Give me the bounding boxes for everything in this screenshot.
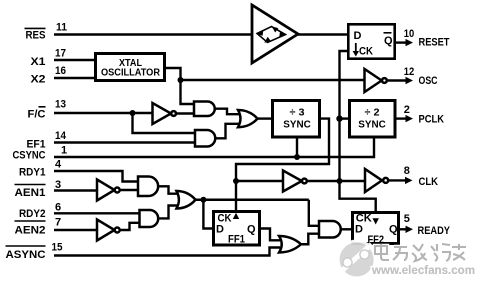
wire OSC output xyxy=(387,79,407,81)
pin label RDY1 (pin 4) xyxy=(19,159,62,179)
wire AEN2 inverter output to AND2 xyxy=(120,223,140,230)
pin label EF1 (pin 14) xyxy=(27,130,67,151)
watermark logo circle xyxy=(338,241,375,278)
pin label X1 (pin 17) xyxy=(31,48,67,69)
svg-text:Q: Q xyxy=(247,224,256,236)
svg-text:3: 3 xyxy=(55,179,61,191)
svg-text:PCLK: PCLK xyxy=(419,114,445,126)
node F/C junction xyxy=(130,110,136,116)
pin label RES (pin 11) xyxy=(25,22,68,42)
pin PCLK (pin 2) xyxy=(404,104,444,126)
svg-text:4: 4 xyxy=(55,159,62,171)
wire CLK output xyxy=(388,179,406,181)
wire RDY1 net xyxy=(54,171,138,182)
svg-text:OSCILLATOR: OSCILLATOR xyxy=(101,67,160,79)
wire internal CLK to FF2 CK xyxy=(340,181,376,222)
wire FF1 clock entry xyxy=(235,181,237,224)
wire schmitt output to reset FF D xyxy=(298,33,348,35)
svg-text:11: 11 xyxy=(56,22,67,34)
wire RESET output xyxy=(395,41,407,43)
svg-text:17: 17 xyxy=(55,48,66,60)
inverter AEN1 xyxy=(97,180,120,201)
wire AEN1 net xyxy=(54,189,97,191)
pin RESET (pin 10) xyxy=(404,28,450,49)
svg-text:www.elecfans.com: www.elecfans.com xyxy=(371,265,475,277)
XTAL oscillator block xyxy=(96,54,165,81)
wire OR3 output xyxy=(196,199,309,201)
wire AND2 output to OR3 xyxy=(158,206,177,219)
svg-text:13: 13 xyxy=(55,99,66,111)
AND gate A2 (RDY2 & AEN2') xyxy=(140,210,159,227)
inverter AEN2 xyxy=(97,220,120,241)
svg-text:RESET: RESET xyxy=(419,37,450,49)
svg-text:X1: X1 xyxy=(31,56,46,68)
wire oscillator branch to AND3 xyxy=(181,80,195,104)
svg-text:X2: X2 xyxy=(31,74,46,86)
node feedback junction xyxy=(233,178,239,184)
AND gate A5 (ready gate) xyxy=(319,221,341,238)
svg-text:8: 8 xyxy=(404,165,410,177)
wire EF1 net xyxy=(54,141,195,143)
wire divide-by-3 output feedback xyxy=(236,119,329,181)
wire F/C net xyxy=(54,112,153,114)
svg-text:OSC: OSC xyxy=(419,75,438,87)
pin label AEN2 (pin 7) xyxy=(15,217,62,237)
svg-text:D: D xyxy=(216,224,224,236)
inverter F/C xyxy=(153,103,177,124)
svg-text:14: 14 xyxy=(55,130,67,142)
svg-text:D: D xyxy=(354,30,362,42)
svg-text:5: 5 xyxy=(404,213,410,225)
svg-text:AEN1: AEN1 xyxy=(15,187,46,199)
wire to AND5 top input xyxy=(309,200,319,226)
wire AEN2 net xyxy=(54,229,97,231)
svg-text:CSYNC: CSYNC xyxy=(13,150,46,162)
wire PCLK output xyxy=(395,117,407,119)
wire OR3 output branch to FF1 D xyxy=(203,200,213,229)
wire AND3 output to OR1 xyxy=(215,109,239,115)
watermark text (CJK strokes approximation) xyxy=(375,244,466,261)
svg-text:1: 1 xyxy=(61,145,67,157)
svg-text:CK: CK xyxy=(359,46,373,58)
flip-flop FF1 xyxy=(214,212,260,246)
svg-text:AEN2: AEN2 xyxy=(15,225,46,237)
svg-text:16: 16 xyxy=(55,65,66,77)
wire internal clock node to inverter I1 xyxy=(236,180,283,182)
inverter I1 (internal CLK) xyxy=(283,171,307,192)
pin OSC (pin 12) xyxy=(404,66,438,87)
wire X2 net xyxy=(54,77,95,79)
wire AEN1 inverter output to AND1 xyxy=(120,189,138,191)
wire AND1 output to OR3 xyxy=(158,186,177,193)
AND gate A1 (RDY1 & AEN1') xyxy=(138,177,158,197)
wire inverter I1 output to CLK buffer xyxy=(307,180,365,182)
wire inverter output to AND3 xyxy=(176,112,194,114)
svg-text:CK: CK xyxy=(356,212,372,224)
wire FF1 Q output to OR4 xyxy=(260,229,281,241)
pin label AEN1 (pin 3) xyxy=(15,179,62,199)
OR gate O4 (async OR) xyxy=(279,236,301,253)
wire READY output xyxy=(399,228,408,230)
svg-text:D: D xyxy=(355,224,363,236)
svg-text:F/C: F/C xyxy=(28,109,46,121)
node OR3 output junction xyxy=(200,197,206,203)
svg-text:RDY1: RDY1 xyxy=(19,167,46,179)
wire AND5 output to FF2 D xyxy=(341,228,351,230)
wire RDY2 net xyxy=(54,212,140,214)
wire X1 net xyxy=(54,59,95,61)
wire ASYNC net xyxy=(54,248,280,256)
pin label RDY2 (pin 6) xyxy=(19,202,61,221)
svg-text:Q: Q xyxy=(389,224,398,236)
svg-text:÷ 2: ÷ 2 xyxy=(365,107,380,119)
pin READY (pin 5) xyxy=(404,213,451,237)
svg-text:12: 12 xyxy=(404,66,415,78)
wire CSYNC branch to divide-by-3 xyxy=(296,138,298,157)
node CSYNC junction xyxy=(294,154,300,160)
AND gate A4 (EF1 & F/C) xyxy=(195,130,215,147)
D flip-flop (reset) xyxy=(348,24,394,58)
buffer B1 (OSC, inverting) xyxy=(365,69,387,92)
svg-text:READY: READY xyxy=(418,225,451,237)
wire OR4 output to AND5 xyxy=(301,234,319,245)
node oscillator junction xyxy=(178,77,184,83)
wire AND4 output to OR1 xyxy=(215,124,239,139)
divide-by-2 SYNC counter xyxy=(350,101,396,138)
node divide-by-2 input junction xyxy=(336,115,342,121)
svg-text:RDY2: RDY2 xyxy=(19,208,46,220)
svg-text:SYNC: SYNC xyxy=(358,119,386,131)
OR gate O3 (ready OR) xyxy=(177,191,196,209)
svg-text:÷ 3: ÷ 3 xyxy=(290,107,305,119)
wire CSYNC net xyxy=(54,138,374,157)
svg-text:6: 6 xyxy=(55,202,61,214)
svg-text:SYNC: SYNC xyxy=(283,119,311,131)
pin label ASYNC (pin 15) xyxy=(6,242,63,262)
divide-by-3 SYNC counter xyxy=(273,101,320,138)
svg-text:15: 15 xyxy=(52,242,63,254)
svg-text:CK: CK xyxy=(218,212,232,224)
pin label X2 (pin 16) xyxy=(31,65,67,86)
svg-text:10: 10 xyxy=(404,28,415,40)
svg-text:7: 7 xyxy=(55,217,61,229)
wire internal CLK to divide-by-2 input xyxy=(340,117,349,119)
watermark url text xyxy=(371,265,475,277)
wire oscillator output to junction xyxy=(166,68,181,80)
flip-flop FF2 xyxy=(353,212,399,246)
pin label CSYNC (pin 1) xyxy=(13,145,68,162)
svg-text:FF1: FF1 xyxy=(228,233,245,245)
pin label F/C (pin 13) xyxy=(28,99,67,121)
pin CLK (pin 8) xyxy=(404,165,438,188)
wire OR1 output to divide-by-3 xyxy=(258,117,272,119)
svg-text:2: 2 xyxy=(404,104,410,116)
svg-text:Q: Q xyxy=(384,35,393,47)
wire RES net xyxy=(54,33,252,35)
svg-text:RES: RES xyxy=(26,30,46,42)
wire oscillator net to OSC buffer xyxy=(181,79,365,81)
svg-text:ASYNC: ASYNC xyxy=(6,249,46,261)
wire internal CLK vertical (to reset FF CK and divide-by-2) xyxy=(340,51,349,181)
schmitt trigger U1 (RES input) xyxy=(252,5,298,63)
AND gate A3 (OSC & F/C') xyxy=(194,102,215,117)
wire F/C branch down to AND4 xyxy=(133,113,196,133)
svg-text:CLK: CLK xyxy=(419,176,439,188)
buffer B2 (CLK, inverting) xyxy=(365,169,388,192)
node internal CLK junction xyxy=(337,178,343,184)
OR gate O1 (clock mux) xyxy=(238,110,258,127)
